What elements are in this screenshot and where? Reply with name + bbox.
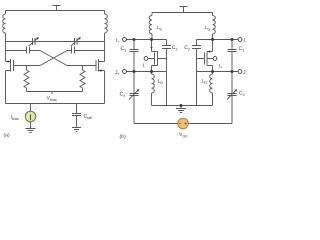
wire C1 left bottom (b): [133, 52, 135, 72]
arrowhead Q1 drain (b): [150, 47, 152, 50]
terminal gate I+ (b): [213, 57, 217, 61]
wire LS left to node (b): [151, 34, 153, 40]
wire Q1 to C2 left (b): [158, 58, 167, 60]
svg-text:LS: LS: [157, 25, 163, 31]
svg-text:Vctrl: Vctrl: [179, 132, 188, 138]
wire bottom rail (b): [152, 105, 213, 107]
wire tail to current source (a): [30, 104, 32, 112]
wire cross diagonal B (a): [40, 51, 67, 66]
wire Ctail stub top: [76, 104, 78, 114]
capacitor C2 left plates (b): [162, 46, 171, 49]
wire C1 left top (b): [133, 40, 135, 50]
current source Ibias circle (a): [25, 111, 36, 122]
wire LS left top stub (b): [151, 13, 153, 16]
wire M2 source stub (a): [99, 70, 105, 72]
wire Q2 source down (b): [212, 66, 214, 72]
transistor M1 gate bar (a): [13, 60, 15, 71]
wire gate line right (a): [67, 65, 96, 67]
wire C2 right bottom (b): [196, 49, 198, 106]
wire varactor row left (a): [6, 41, 33, 43]
wire Q1 gate from terminal (b): [148, 58, 155, 60]
wire varactor row right (a): [77, 41, 105, 43]
wire right branch mid (a): [104, 33, 106, 62]
wire Q2 source stub (b): [207, 65, 213, 67]
wire LS right to node (b): [212, 34, 214, 40]
capacitor coupling left plates (a): [27, 47, 30, 54]
svg-text:LD: LD: [158, 79, 164, 85]
wire C2 left bottom (b): [166, 49, 168, 106]
terminal I- right (b): [238, 38, 242, 42]
varactor Cv right plates (b): [228, 94, 237, 96]
junction source dot right (b): [211, 70, 214, 73]
junction source dot left (b): [150, 70, 153, 73]
capacitor C2 right plates (b): [192, 46, 201, 49]
wire M1 source stub (a): [6, 70, 11, 72]
wire cap row left (a): [6, 50, 27, 52]
svg-text:J-: J-: [243, 70, 248, 76]
junction coil-drain dot left (b): [150, 38, 153, 41]
inductor LD right (b): [210, 74, 213, 93]
inductor L right (a): [105, 14, 108, 33]
svg-text:Cv: Cv: [239, 91, 245, 97]
wire top rail (b): [152, 12, 213, 14]
wire Q2 gate to C2 (b): [197, 58, 205, 60]
transistor Q1 gate bar (b): [154, 53, 156, 65]
wire left branch mid (a): [5, 33, 7, 62]
wire LD left top stub (b): [151, 72, 153, 75]
open terminals: [123, 38, 242, 74]
supply VDD symbol (a): [53, 6, 61, 11]
svg-text:(a): (a): [4, 133, 10, 139]
capacitor Ctail plates: [72, 114, 81, 116]
wire cap row right (a): [75, 50, 105, 52]
varactor left arrow (a): [29, 38, 38, 46]
ground (b): [176, 109, 186, 113]
svg-text:I+: I+: [116, 38, 120, 44]
transistor Q2 channel (b): [206, 52, 208, 66]
junction node I- dot (b): [231, 38, 234, 41]
wire Q1 source stub (b): [152, 65, 158, 67]
arrowhead Cv right (b): [235, 89, 238, 92]
resistor R1 bottom wire (a): [26, 88, 28, 92]
voltage source Vctrl circle (b): [178, 118, 189, 129]
capacitor C1 right plates (b): [228, 50, 237, 52]
transistor M1 channel (a): [10, 59, 12, 72]
varactor left plates (a): [33, 38, 36, 45]
inductor LS right (b): [213, 16, 216, 34]
wire top rail (a): [6, 10, 105, 12]
varactor right plates (a): [75, 38, 78, 45]
wire Q2 drain vertical (b): [212, 40, 214, 52]
wire M1 source down (a): [5, 71, 7, 104]
wire varactor row middle (a): [35, 41, 75, 43]
terminal J- right (b): [238, 70, 242, 74]
transistor M2 channel (a): [98, 59, 100, 72]
junction node I+ left dot (b): [133, 38, 136, 41]
wire right branch top (a): [104, 11, 106, 15]
svg-text:LS: LS: [205, 25, 211, 31]
varactor right arrow (a): [71, 38, 80, 46]
wire Cv left top (b): [133, 72, 135, 94]
wire cross diagonal A (a): [40, 51, 67, 66]
wire C2 right top (b): [196, 40, 198, 46]
svg-text:(b): (b): [120, 134, 126, 140]
wire ground stub (b): [180, 106, 182, 109]
transistor Q1 channel (b): [157, 52, 159, 66]
transistor Q2 gate bar (b): [204, 53, 206, 65]
resistor R1 (a): [24, 70, 29, 88]
svg-text:C2: C2: [172, 45, 178, 51]
capacitor coupling right plates (a): [72, 47, 75, 54]
terminal gate I- (b): [144, 57, 148, 61]
svg-text:Ctail: Ctail: [84, 114, 93, 120]
inductor L left (a): [3, 14, 6, 33]
wire Q1 drain stub (b): [152, 51, 158, 53]
wire gate line left (a): [14, 65, 41, 67]
wire Vbias rail (a): [27, 91, 83, 93]
capacitor C1 left plates (b): [130, 50, 139, 52]
wire node row I- (b): [197, 39, 239, 41]
wire Q1 drain vertical (b): [151, 40, 153, 52]
svg-text:I+: I+: [219, 64, 223, 70]
wire C1 right top (b): [231, 40, 233, 50]
wire Q1 source down (b): [151, 66, 153, 72]
terminal J+ (b): [123, 70, 127, 74]
svg-text:C1: C1: [121, 46, 127, 52]
varactor Cv left plates (b): [130, 94, 139, 96]
svg-text:Vbias: Vbias: [47, 96, 58, 102]
wire cap2 to diagonal (a): [67, 50, 72, 52]
wire Cv right bottom (b): [231, 96, 233, 124]
wire left branch top (a): [5, 11, 7, 15]
node Vbias tick (a): [51, 92, 53, 95]
inductor LS left (b): [149, 16, 152, 34]
wire C1 right bottom (b): [231, 52, 233, 72]
svg-text:Cv: Cv: [120, 92, 126, 98]
transistor M2 gate bar (a): [95, 60, 97, 71]
resistor R1 top wire (a): [26, 66, 28, 71]
arrowheads and junction dots: [8, 37, 238, 115]
wire Q2 drain stub (b): [207, 51, 213, 53]
wire node row I+ (b): [126, 39, 166, 41]
svg-text:I-: I-: [244, 38, 247, 44]
arrowhead M2 source (a): [99, 69, 102, 71]
wire M2 drain stub (a): [99, 61, 105, 63]
wire Cv right top (b): [231, 72, 233, 94]
wire node row J- (b): [197, 71, 239, 73]
wire LD right top stub (b): [212, 72, 214, 75]
wire Q2 to terminal (b): [207, 58, 213, 60]
arrowhead Q2 drain (b): [207, 50, 210, 52]
terminal I+ (b): [123, 38, 127, 42]
varactor Cv right arrow (b): [227, 90, 237, 100]
svg-text:Ibias: Ibias: [11, 115, 20, 121]
wire Ctail stub bottom: [76, 116, 78, 128]
arrowhead M1 drain (a): [8, 60, 11, 62]
wire LD left bottom (b): [151, 93, 153, 106]
wire current source to ground (a): [30, 122, 32, 129]
wire node row J+ (b): [126, 71, 166, 73]
svg-text:LD: LD: [202, 79, 208, 85]
wire C2 left top (b): [166, 40, 168, 46]
wire Vctrl right (b): [188, 123, 232, 125]
wire LS right top stub (b): [212, 13, 214, 16]
current source Ibias arrow (a): [30, 115, 32, 121]
varactor Cv left arrow (b): [129, 90, 139, 100]
svg-text:I-: I-: [143, 63, 146, 69]
wire Cv left bottom (b): [133, 96, 135, 124]
svg-text:C2: C2: [184, 45, 190, 51]
arrowhead varactor left (a): [36, 37, 39, 40]
junction node J+ dot (b): [133, 70, 136, 73]
junction ground dot (b): [180, 104, 183, 107]
wire Vctrl left (b): [134, 123, 178, 125]
svg-text:C1: C1: [239, 46, 245, 52]
voltage source Vctrl plus minus (b): [179, 123, 186, 125]
resistor R2 bottom wire (a): [82, 88, 84, 92]
wire bottom rail (a): [6, 103, 105, 105]
wire cap1 to diagonal (a): [30, 50, 41, 52]
junction node J- dot (b): [231, 70, 234, 73]
resistor R2 (a): [80, 70, 85, 88]
inductor LD left (b): [152, 74, 155, 93]
supply VDD symbol (b): [180, 7, 188, 13]
wire M2 source down (a): [104, 71, 106, 104]
junction coil-drain dot right (b): [211, 38, 214, 41]
wire LD right bottom (b): [212, 93, 214, 106]
resistor R2 top wire (a): [82, 66, 84, 71]
arrowhead varactor right (a): [78, 37, 81, 40]
wire M1 drain stub (a): [6, 61, 11, 63]
svg-text:J+: J+: [115, 70, 121, 76]
ground under current source (a): [26, 129, 36, 133]
arrowhead current source Ibias (a): [29, 112, 32, 115]
ground under Ctail: [72, 128, 81, 132]
arrowhead Cv left (b): [137, 89, 140, 92]
